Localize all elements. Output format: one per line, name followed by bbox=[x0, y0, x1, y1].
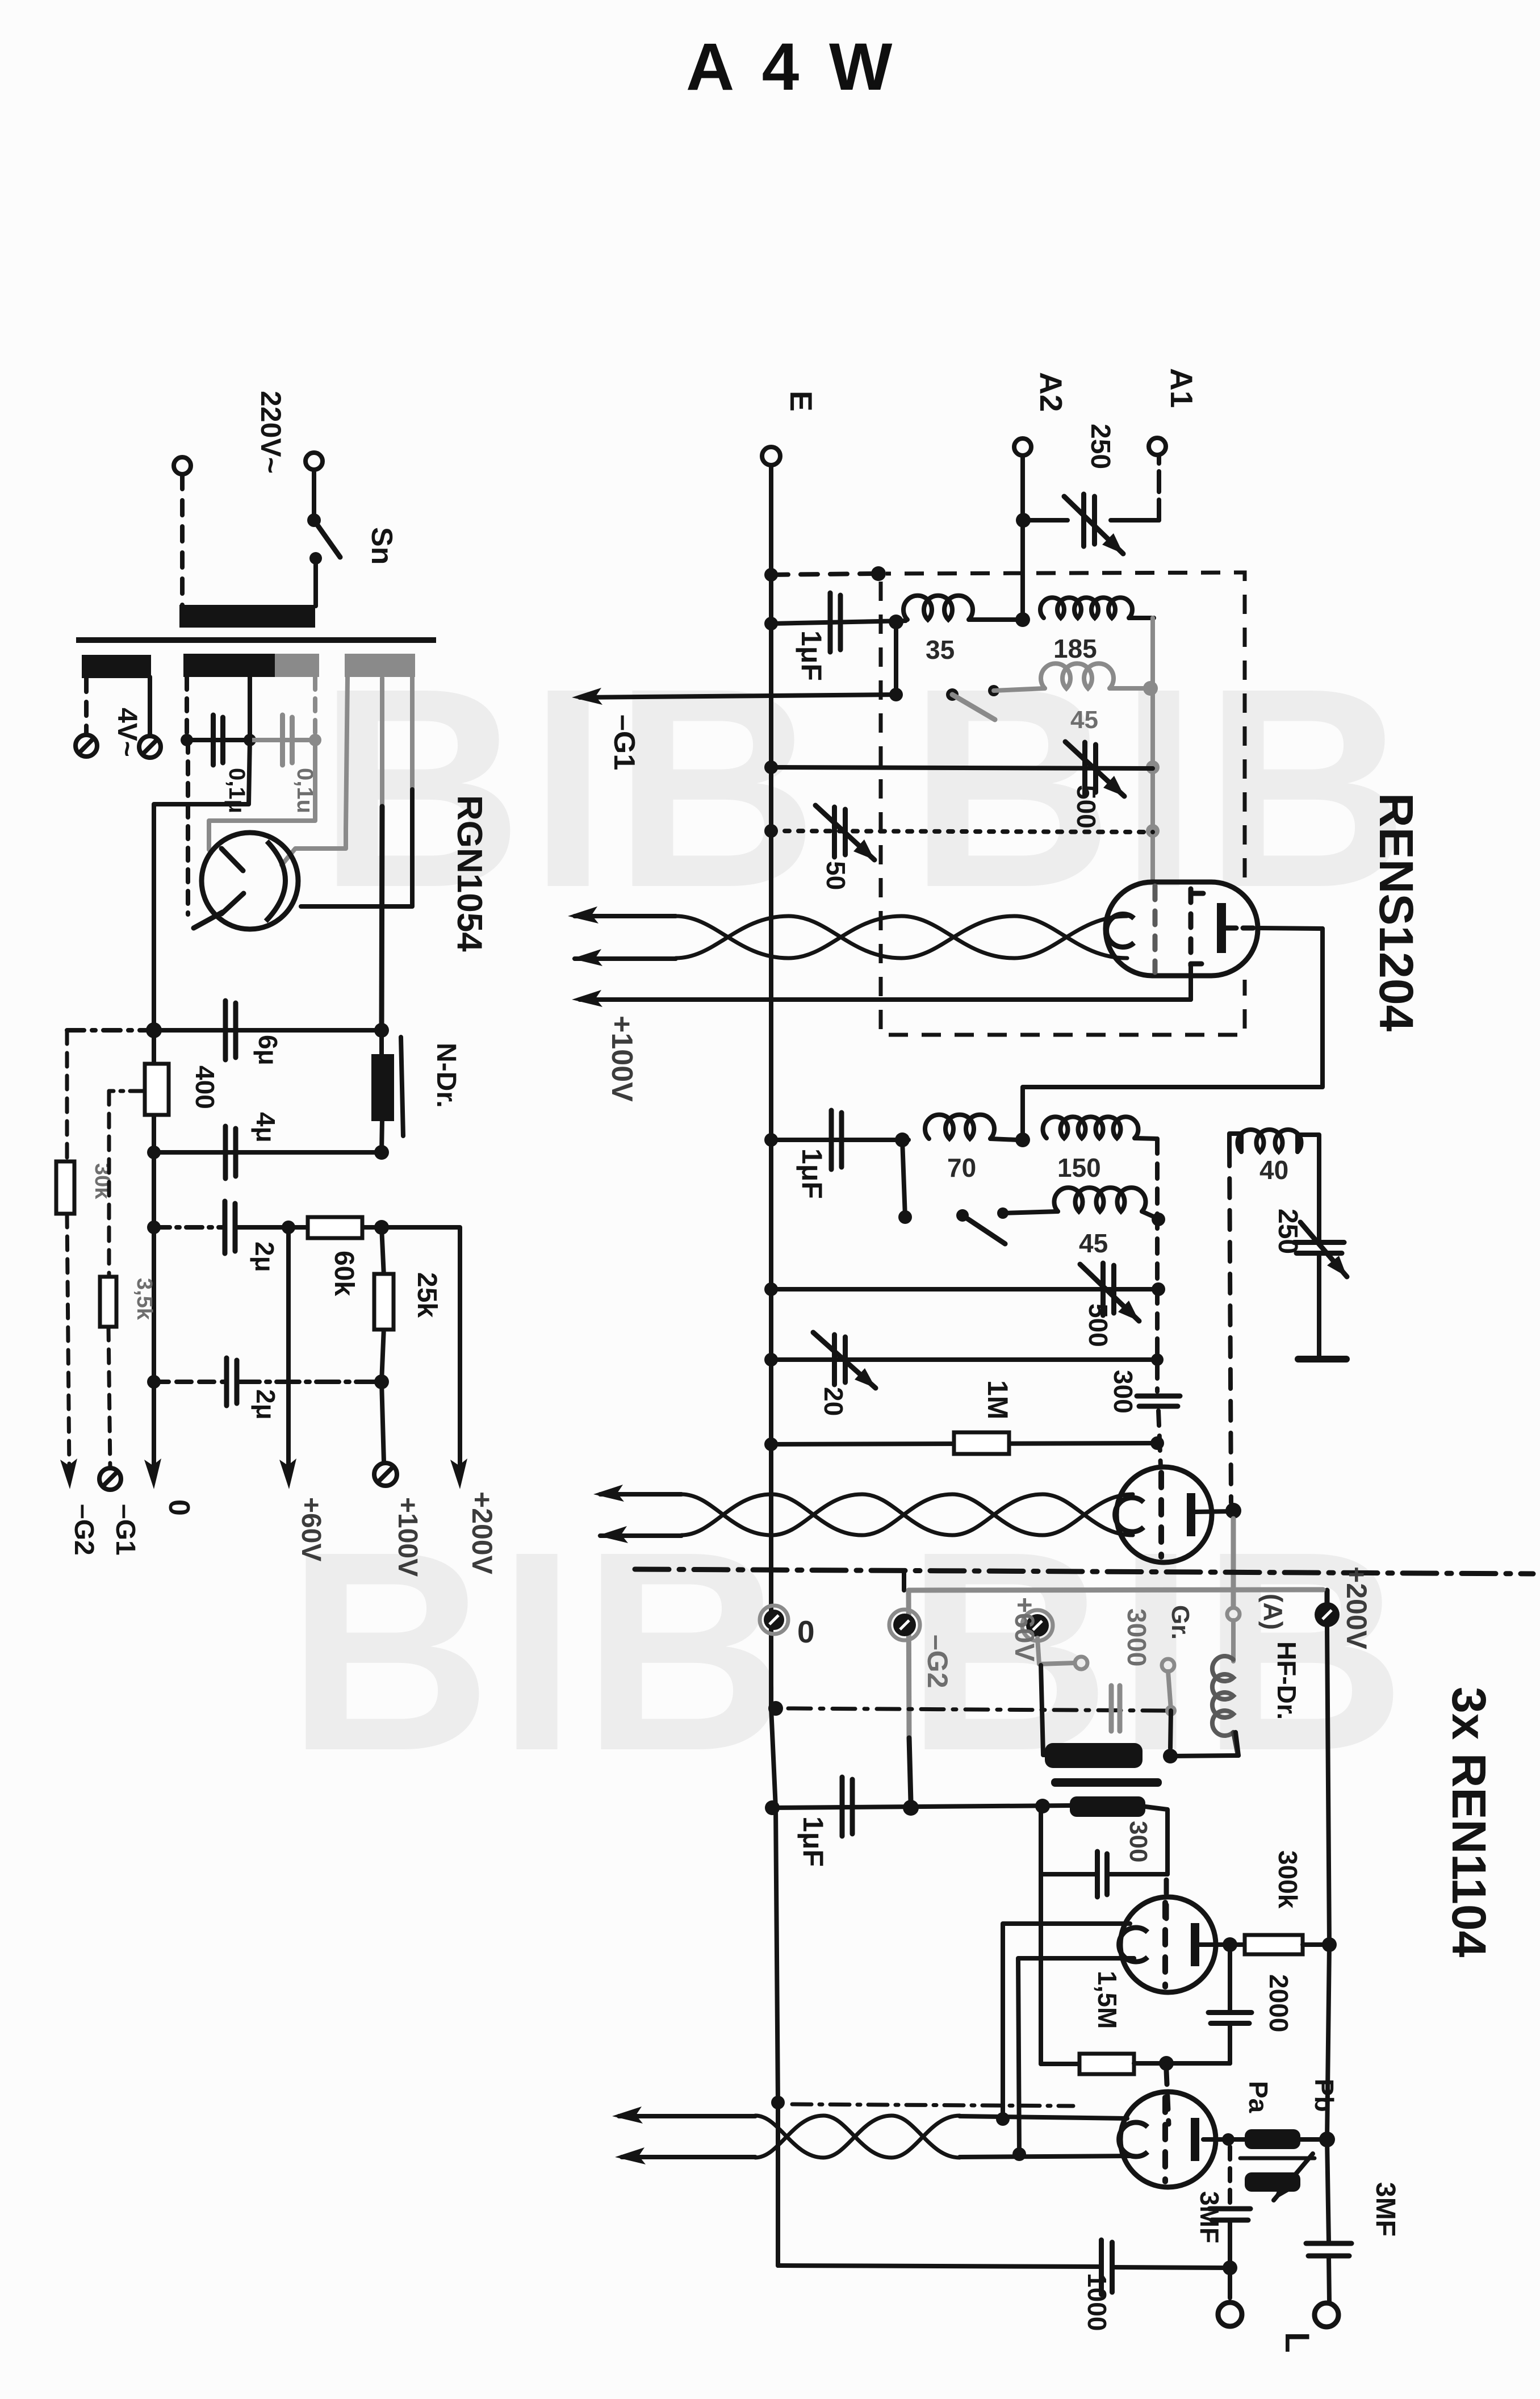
wire 500b row bbox=[771, 1287, 1157, 1292]
label 150 bbox=[1057, 1153, 1101, 1182]
node bbox=[282, 1221, 295, 1234]
wire 1M row bbox=[771, 1443, 1157, 1444]
node bbox=[764, 617, 778, 630]
transformer AF secondary bbox=[1070, 1796, 1145, 1817]
wire HT centre output bbox=[382, 678, 382, 1030]
resistor 400 bbox=[145, 1030, 220, 1382]
arrow -G1 bbox=[572, 688, 602, 705]
terminal -G2 mid bbox=[889, 1610, 920, 1640]
wire bbox=[1170, 1711, 1171, 1748]
transformer AF core bbox=[1051, 1778, 1162, 1787]
wire +200V branch bbox=[382, 1227, 460, 1474]
terminal 4V b bbox=[139, 736, 161, 758]
wire bbox=[1023, 518, 1159, 523]
svg-text:(A): (A) bbox=[1258, 1594, 1288, 1630]
terminal +60V mid bbox=[1022, 1610, 1053, 1641]
svg-text:A2: A2 bbox=[1033, 372, 1069, 412]
wire grid bus stage2 bbox=[1157, 1139, 1161, 1467]
capacitor 300 b bbox=[1098, 1852, 1107, 1897]
capacitor 1uF c bbox=[842, 1777, 852, 1836]
node cap junction right bbox=[309, 734, 321, 746]
arrow +100V bbox=[572, 990, 602, 1007]
capacitor 500 b bbox=[1080, 1263, 1139, 1321]
label -G2 bbox=[69, 1504, 99, 1556]
terminal -G1 bbox=[99, 1468, 121, 1490]
label 500 a bbox=[1072, 785, 1101, 829]
capacitor 3000 bbox=[1111, 1686, 1120, 1731]
svg-text:70: 70 bbox=[947, 1153, 976, 1182]
plug ring 60V bbox=[1075, 1657, 1087, 1669]
svg-text:2000: 2000 bbox=[1264, 1974, 1294, 2032]
svg-text:3x REN1104: 3x REN1104 bbox=[1442, 1687, 1496, 1958]
node bbox=[1222, 2133, 1234, 2146]
node bbox=[1322, 1937, 1337, 1952]
wire 4u row bbox=[154, 1150, 382, 1155]
capacitor 20 bbox=[813, 1332, 876, 1388]
label 2u a bbox=[250, 1242, 279, 1272]
svg-text:20: 20 bbox=[819, 1387, 848, 1416]
label A1 bbox=[1164, 368, 1199, 408]
node bus junction bbox=[146, 1022, 162, 1038]
wire anode drop gray bbox=[1231, 1519, 1236, 1607]
twisted pair heater 2 bbox=[593, 1485, 1133, 1543]
node bbox=[1016, 513, 1031, 528]
label +100V arrow bbox=[605, 1015, 638, 1102]
capacitor 300 a bbox=[1137, 1396, 1180, 1406]
svg-text:RGN1054: RGN1054 bbox=[450, 795, 489, 952]
svg-text:Gr.: Gr. bbox=[1166, 1605, 1194, 1640]
svg-text:2μ: 2μ bbox=[250, 1242, 279, 1272]
wire anode output bbox=[1203, 2137, 1228, 2142]
label 45 b bbox=[1079, 1228, 1108, 1258]
transformer primary bar bbox=[179, 605, 315, 628]
capacitor 50 bbox=[815, 805, 874, 860]
svg-text:–G2: –G2 bbox=[69, 1504, 99, 1556]
capacitor 1uF a bbox=[830, 593, 840, 652]
wire 20 row bbox=[771, 1357, 1157, 1362]
terminal L out bbox=[1315, 2303, 1338, 2327]
wire anode AF1 bbox=[1199, 1942, 1230, 1947]
svg-text:Pb: Pb bbox=[1309, 2079, 1339, 2112]
svg-text:BIB: BIB bbox=[909, 629, 1415, 946]
svg-text:A 4 W: A 4 W bbox=[686, 30, 898, 105]
svg-text:500: 500 bbox=[1083, 1303, 1113, 1347]
node bbox=[903, 1800, 919, 1816]
wire heater lead left bbox=[186, 740, 190, 914]
label 1000 bbox=[1082, 2273, 1112, 2331]
twisted pair heater 1 bbox=[568, 906, 1127, 966]
wire bbox=[250, 738, 315, 742]
label 3MF b bbox=[1370, 2182, 1400, 2237]
svg-text:300k: 300k bbox=[1273, 1850, 1303, 1909]
node bbox=[1223, 1937, 1237, 1952]
wire bias branch 2 bbox=[109, 1091, 145, 1277]
node bbox=[374, 1220, 389, 1235]
coil 45 b bbox=[1054, 1188, 1157, 1218]
resistor 30k bbox=[56, 1161, 74, 1214]
node shield corner bbox=[871, 566, 886, 581]
capacitor 1uF b bbox=[831, 1110, 842, 1169]
label L bbox=[1278, 2332, 1316, 2353]
label Pb bbox=[1309, 2079, 1339, 2112]
switch wave band 1 bbox=[946, 685, 999, 720]
node bbox=[1150, 1436, 1164, 1450]
terminal E bbox=[762, 447, 780, 465]
wire bias rail gray bbox=[904, 1572, 1327, 1802]
svg-text:3,5k: 3,5k bbox=[132, 1278, 156, 1320]
label 35 bbox=[926, 635, 955, 664]
svg-text:40: 40 bbox=[1259, 1155, 1288, 1185]
svg-text:150: 150 bbox=[1057, 1153, 1101, 1182]
capacitor 6u bbox=[225, 1001, 236, 1060]
wire bbox=[1037, 1638, 1074, 1664]
coil 185 bbox=[1040, 597, 1154, 618]
wire bias branch 1 bbox=[65, 1030, 69, 1161]
label 3,5k bbox=[132, 1278, 156, 1320]
label 1uF b bbox=[796, 1148, 828, 1199]
svg-text:60k: 60k bbox=[329, 1251, 359, 1296]
svg-text:400: 400 bbox=[190, 1065, 220, 1109]
node bbox=[1012, 2147, 1026, 2161]
resistor 300k bbox=[1230, 1935, 1329, 1954]
node bbox=[764, 760, 778, 774]
label 300k bbox=[1273, 1850, 1303, 1909]
svg-text:3MF: 3MF bbox=[1370, 2182, 1400, 2237]
node bbox=[1146, 824, 1160, 838]
svg-text:+100V: +100V bbox=[392, 1497, 422, 1577]
capacitor 1000 bbox=[1102, 2240, 1112, 2294]
wire bbox=[185, 677, 189, 736]
label 40 bbox=[1259, 1155, 1288, 1185]
node bbox=[1143, 681, 1158, 696]
wire 1uF row 3 bbox=[771, 1805, 1071, 1808]
node bbox=[764, 1437, 778, 1451]
node bbox=[374, 1374, 389, 1389]
transformer winding HT bbox=[345, 654, 415, 677]
wire bbox=[1228, 2221, 1232, 2266]
node bbox=[889, 615, 903, 629]
shield box stage1 bbox=[881, 572, 1245, 1035]
wire grid return a bbox=[1003, 1924, 1130, 2119]
wire grid return dashdot bbox=[771, 2096, 1073, 2109]
terminal A1 bbox=[1149, 438, 1166, 455]
svg-text:Sn: Sn bbox=[365, 527, 398, 565]
choke HF-Dr bbox=[1212, 1620, 1237, 1753]
capacitor 250 antenna bbox=[1064, 494, 1123, 554]
svg-text:45: 45 bbox=[1070, 706, 1098, 734]
node bbox=[1165, 1705, 1177, 1716]
node bbox=[764, 824, 778, 838]
label 4u bbox=[251, 1112, 281, 1143]
plug ring A bbox=[1227, 1608, 1240, 1620]
label 3000 bbox=[1122, 1608, 1152, 1666]
label HF-Dr bbox=[1272, 1641, 1302, 1720]
label RGN1054 bbox=[450, 795, 489, 952]
label 250 b bbox=[1273, 1209, 1303, 1254]
wire bbox=[67, 1214, 69, 1471]
label 2u b bbox=[251, 1389, 281, 1420]
node cap junction mid bbox=[244, 734, 256, 746]
arrow -G2 out bbox=[60, 1458, 77, 1489]
node bbox=[1035, 1799, 1050, 1813]
label 50 bbox=[821, 861, 851, 890]
arrow 0 out bbox=[144, 1458, 161, 1489]
node bbox=[764, 1353, 778, 1366]
wire +60V to primary bbox=[1041, 1665, 1048, 1755]
label -G1 arrow bbox=[608, 714, 641, 770]
label 185 bbox=[1053, 634, 1097, 663]
node bbox=[1015, 612, 1030, 627]
label 0,1u b bbox=[292, 768, 317, 813]
svg-text:50: 50 bbox=[821, 861, 851, 890]
wire bbox=[312, 470, 316, 518]
capacitor 250 b bbox=[1294, 1222, 1347, 1277]
svg-text:L: L bbox=[1278, 2332, 1316, 2353]
label +200V mid bbox=[1341, 1566, 1372, 1650]
label 30k bbox=[90, 1163, 114, 1199]
wire bbox=[1041, 1872, 1167, 1876]
wire bbox=[180, 474, 185, 606]
svg-text:35: 35 bbox=[926, 635, 955, 664]
svg-text:300: 300 bbox=[1108, 1370, 1138, 1414]
label 500 b bbox=[1083, 1303, 1113, 1347]
resistor 25k bbox=[374, 1227, 442, 1382]
wire regen bus bbox=[1229, 1147, 1231, 1503]
svg-text:25k: 25k bbox=[412, 1272, 442, 1318]
transformer core bbox=[76, 637, 436, 643]
label 0 mid bbox=[797, 1614, 815, 1649]
label Sn bbox=[365, 527, 398, 565]
node bbox=[764, 568, 778, 582]
node bbox=[765, 1800, 780, 1815]
node bbox=[1015, 1132, 1030, 1147]
terminal A2 bbox=[1014, 438, 1031, 455]
wire bbox=[1170, 1732, 1238, 1756]
label +100V bbox=[392, 1497, 422, 1577]
node bbox=[1319, 2131, 1335, 2147]
terminal 4V a bbox=[76, 735, 97, 757]
terminal 0 mid bbox=[760, 1606, 788, 1634]
wire bbox=[1168, 1671, 1171, 1710]
capacitor 2u b bbox=[227, 1358, 237, 1406]
label +60V bbox=[296, 1497, 326, 1561]
terminal 220V right bbox=[306, 453, 323, 470]
capacitor 0,1u a bbox=[214, 715, 223, 765]
label 1,5M bbox=[1093, 1971, 1122, 2029]
capacitor 500 a bbox=[1065, 742, 1124, 796]
svg-text:+200V: +200V bbox=[466, 1491, 498, 1575]
svg-text:300: 300 bbox=[1124, 1821, 1152, 1862]
svg-text:RENS1204: RENS1204 bbox=[1370, 793, 1423, 1032]
wire bbox=[108, 1327, 110, 1468]
node bbox=[898, 1210, 912, 1224]
svg-text:0: 0 bbox=[797, 1614, 815, 1649]
plug ring Gr bbox=[1162, 1659, 1174, 1671]
choke N-Dr bbox=[371, 1030, 403, 1152]
svg-text:250: 250 bbox=[1273, 1209, 1303, 1254]
wire bbox=[84, 678, 89, 734]
label 45 a bbox=[1070, 706, 1098, 734]
wire bbox=[902, 1140, 905, 1217]
label 6u bbox=[253, 1035, 283, 1065]
svg-text:–G1: –G1 bbox=[110, 1504, 140, 1556]
wire bbox=[1317, 1253, 1321, 1356]
svg-text:0: 0 bbox=[162, 1499, 195, 1516]
wire 6u row dashdot bbox=[67, 1028, 152, 1033]
wire bottom row bbox=[778, 2266, 1230, 2268]
capacitor 0,1u b bbox=[283, 715, 292, 765]
label 3MF a bbox=[1195, 2191, 1224, 2243]
node bbox=[1223, 2260, 1237, 2275]
wire +200V bus lower bbox=[1327, 1627, 1329, 2301]
coil 70 bbox=[925, 1115, 1018, 1140]
node bbox=[1152, 1282, 1165, 1296]
label 300 a bbox=[1108, 1370, 1138, 1414]
wire 500 row bbox=[771, 767, 1153, 768]
arrow +60V out bbox=[279, 1458, 296, 1489]
node bbox=[764, 1133, 778, 1147]
svg-text:1μF: 1μF bbox=[796, 630, 827, 681]
label 0 bbox=[162, 1499, 195, 1516]
wire bbox=[382, 1382, 384, 1462]
coil 40 bbox=[1229, 1130, 1319, 1242]
svg-text:E: E bbox=[784, 391, 819, 412]
node bbox=[895, 1132, 910, 1147]
wire -G1 row bbox=[580, 695, 896, 697]
transformer AF primary bbox=[1045, 1743, 1143, 1768]
label 2000 bbox=[1264, 1974, 1294, 2032]
wire grid bus tube4 bbox=[1166, 2071, 1169, 2124]
label RENS1204 bbox=[1370, 793, 1423, 1032]
svg-text:+60V: +60V bbox=[296, 1497, 326, 1561]
node bbox=[147, 1221, 161, 1234]
svg-text:BIB: BIB bbox=[287, 1492, 793, 1809]
wire heater lead right bbox=[209, 677, 315, 850]
node bbox=[996, 2112, 1010, 2126]
resistor 1M bbox=[954, 1380, 1014, 1454]
svg-text:1μF: 1μF bbox=[796, 1148, 828, 1199]
svg-text:6μ: 6μ bbox=[253, 1035, 283, 1065]
wire +100V row bbox=[580, 966, 1191, 1000]
svg-text:Pa: Pa bbox=[1244, 2081, 1273, 2113]
node bbox=[1225, 1503, 1241, 1519]
svg-text:45: 45 bbox=[1079, 1228, 1108, 1258]
terminal 220V left bbox=[174, 457, 191, 474]
wire 1uF row 2 bbox=[771, 1138, 909, 1142]
label 1uF c bbox=[797, 1816, 829, 1867]
wire 1uF row 1 bbox=[771, 621, 906, 624]
node bbox=[147, 1375, 161, 1389]
label 4V~ bbox=[112, 708, 142, 757]
tube AF1 REN1104 bbox=[1119, 1897, 1216, 1992]
wire anode stage1 bbox=[1023, 928, 1323, 1140]
resistor 60k bbox=[308, 1217, 362, 1296]
terminal +200V mid bbox=[1315, 1602, 1340, 1627]
label +60V mid bbox=[1009, 1597, 1039, 1661]
label 20 bbox=[819, 1387, 848, 1416]
wire 2u row 1 bbox=[154, 1225, 382, 1230]
wire HT lead left bbox=[282, 677, 348, 865]
svg-text:4V~: 4V~ bbox=[112, 708, 142, 757]
label +200V bbox=[466, 1491, 498, 1575]
tube detector REN1104 bbox=[1115, 1467, 1212, 1562]
svg-text:0,1μ: 0,1μ bbox=[224, 768, 249, 813]
wire bbox=[1166, 2024, 1230, 2063]
label Gr bbox=[1166, 1605, 1194, 1640]
switch Sn bbox=[307, 513, 340, 606]
wire bbox=[1228, 2147, 1232, 2204]
capacitor 2u a bbox=[225, 1201, 235, 1253]
label 0,1u bbox=[224, 768, 249, 813]
svg-text:500: 500 bbox=[1072, 785, 1101, 829]
tube RENS1204 bbox=[1106, 882, 1258, 976]
wire grid return b bbox=[1018, 1958, 1134, 2154]
wire +60V branch bbox=[286, 1227, 291, 1472]
node bbox=[1163, 1749, 1178, 1763]
node bbox=[147, 1146, 161, 1159]
wire 2u row 2 bbox=[154, 1380, 382, 1384]
svg-text:3000: 3000 bbox=[1122, 1608, 1152, 1666]
svg-text:–G1: –G1 bbox=[608, 714, 641, 770]
svg-text:+60V: +60V bbox=[1009, 1597, 1039, 1661]
wire bbox=[994, 688, 1045, 691]
node bbox=[1159, 2056, 1174, 2071]
wire bbox=[1145, 1807, 1167, 1874]
coil 150 bbox=[1043, 1117, 1156, 1139]
svg-text:1μF: 1μF bbox=[797, 1816, 829, 1867]
node bbox=[1151, 1353, 1164, 1366]
node bbox=[374, 1023, 389, 1038]
coil 35 bbox=[903, 596, 1016, 620]
svg-text:250: 250 bbox=[1085, 424, 1115, 469]
terminal O out bbox=[1218, 2302, 1242, 2326]
wire bbox=[148, 677, 152, 735]
wire anode detector bbox=[1195, 1511, 1231, 1512]
capacitor 2000 bbox=[1208, 1945, 1252, 2063]
wire E bus bbox=[771, 465, 778, 2266]
svg-text:4μ: 4μ bbox=[251, 1112, 281, 1143]
wire 0 return dash-dot bbox=[788, 1708, 1167, 1711]
svg-text:1,5M: 1,5M bbox=[1093, 1971, 1122, 2029]
wire pot link bbox=[1240, 2156, 1315, 2160]
node bbox=[768, 1701, 783, 1716]
resistor Pb bbox=[1245, 2172, 1300, 2192]
capacitor 3MF a bbox=[1210, 2209, 1250, 2220]
node bbox=[1152, 1213, 1165, 1226]
label 250 a bbox=[1085, 424, 1115, 469]
node cap junction left bbox=[181, 734, 193, 746]
coil 45 a bbox=[1041, 663, 1150, 688]
svg-text:3MF: 3MF bbox=[1195, 2191, 1224, 2243]
wire bbox=[1003, 1211, 1058, 1213]
tube output REN1104 bbox=[1119, 2092, 1216, 2187]
svg-text:–G2: –G2 bbox=[922, 1635, 953, 1689]
label -G2 mid bbox=[922, 1635, 953, 1689]
svg-text:+100V: +100V bbox=[605, 1015, 638, 1102]
wire shield link bbox=[771, 574, 874, 575]
node bbox=[889, 688, 903, 701]
arrow +200V out bbox=[450, 1458, 467, 1489]
terminal +100V bbox=[374, 1463, 397, 1486]
resistor 3,5k bbox=[100, 1277, 116, 1327]
capacitor 4u bbox=[225, 1126, 236, 1178]
pot arrow Pb bbox=[1274, 2154, 1313, 2200]
transformer winding heater bbox=[183, 654, 319, 677]
capacitor 3MF b bbox=[1306, 2243, 1351, 2256]
rectifier RGN1054 bbox=[194, 833, 298, 929]
label N-Dr bbox=[431, 1043, 461, 1108]
twisted pair heater 3 bbox=[612, 2107, 1133, 2164]
